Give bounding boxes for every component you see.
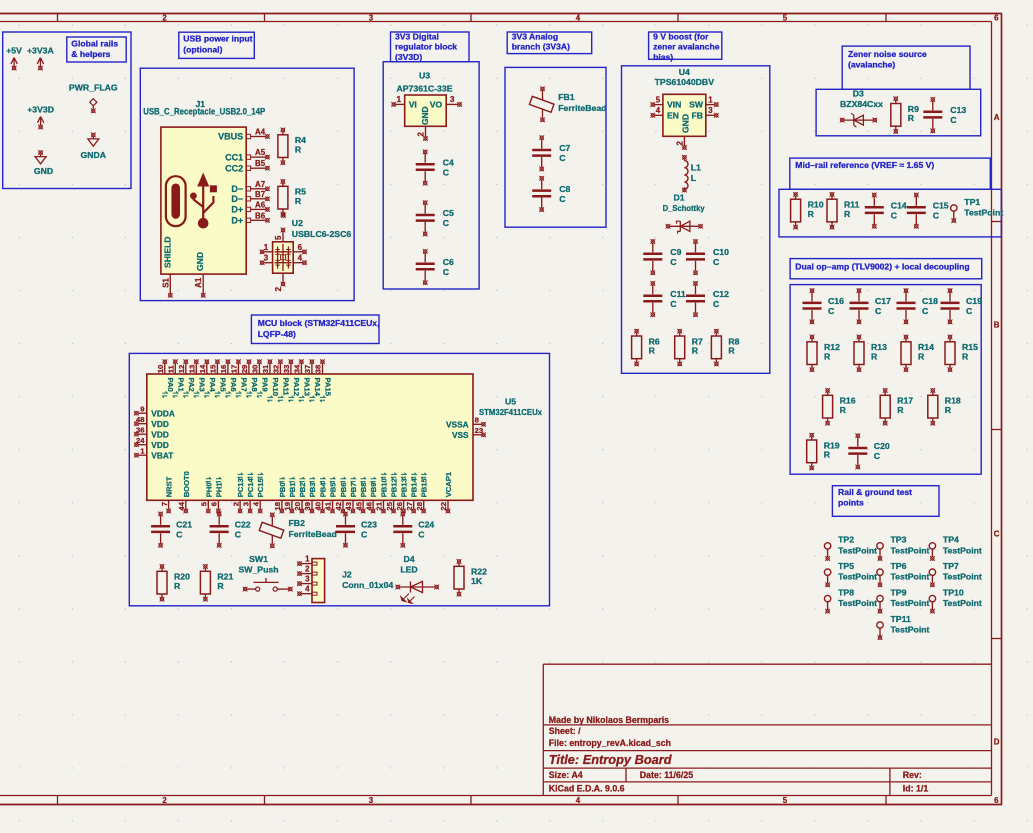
- svg-text:FB1: FB1: [558, 92, 575, 102]
- svg-text:PB6: PB6: [339, 483, 348, 498]
- svg-text:FB2: FB2: [289, 518, 306, 528]
- svg-text:1: 1: [264, 243, 269, 252]
- svg-text:C16: C16: [828, 296, 844, 306]
- IC U2 USBLC6-2SC6: [260, 213, 352, 291]
- svg-text:SW: SW: [689, 100, 704, 110]
- svg-text:VDDA: VDDA: [151, 409, 175, 419]
- svg-text:C: C: [994, 529, 1000, 538]
- text box USB power input (optional): [179, 32, 255, 58]
- block outline Mid-rail reference: [779, 189, 1001, 237]
- svg-text:C: C: [443, 167, 450, 177]
- svg-text:C: C: [670, 299, 677, 309]
- svg-text:L: L: [691, 173, 697, 183]
- ferrite bead FB2: [259, 512, 337, 548]
- svg-text:22: 22: [439, 502, 448, 511]
- svg-text:30: 30: [251, 365, 260, 374]
- svg-text:4: 4: [305, 585, 310, 594]
- svg-text:TP11: TP11: [891, 614, 911, 624]
- svg-text:C: C: [875, 306, 882, 316]
- svg-text:PB12: PB12: [390, 478, 399, 497]
- svg-text:1K: 1K: [471, 576, 483, 586]
- svg-text:Title: Entropy Board: Title: Entropy Board: [549, 752, 673, 767]
- svg-text:PA15: PA15: [324, 378, 333, 397]
- svg-text:VBUS: VBUS: [218, 132, 243, 142]
- svg-text:TP10: TP10: [943, 587, 964, 597]
- svg-text:19: 19: [283, 502, 292, 511]
- IC U4 TPS61040DBV: [650, 67, 718, 150]
- svg-text:3: 3: [241, 502, 250, 506]
- resistor R4: [278, 128, 306, 166]
- capacitor C24: [393, 512, 434, 548]
- power flag PWR_FLAG: [69, 82, 118, 113]
- svg-text:46: 46: [364, 502, 373, 511]
- svg-text:MCU block (STM32F411CEUx,: MCU block (STM32F411CEUx,: [258, 318, 380, 328]
- resistor R11: [827, 192, 860, 230]
- test point TP7: [929, 561, 982, 587]
- svg-text:A: A: [994, 113, 1000, 122]
- resistor R13: [854, 335, 887, 373]
- svg-text:VBAT: VBAT: [151, 451, 173, 461]
- svg-text:zener avalanche: zener avalanche: [653, 42, 720, 52]
- connector J1 USB_C_Receptacle_USB2.0_14P: [143, 99, 270, 298]
- svg-text:3: 3: [369, 14, 374, 23]
- svg-text:4: 4: [656, 106, 661, 115]
- svg-text:D−: D−: [231, 194, 243, 204]
- svg-text:2: 2: [417, 132, 426, 137]
- svg-text:STM32F411CEUx: STM32F411CEUx: [479, 407, 542, 417]
- svg-text:C: C: [559, 153, 566, 163]
- svg-text:KiCad E.D.A. 9.0.6: KiCad E.D.A. 9.0.6: [549, 783, 625, 793]
- svg-text:15: 15: [209, 364, 218, 373]
- svg-text:21: 21: [375, 501, 384, 510]
- svg-text:PH1: PH1: [214, 482, 223, 498]
- svg-text:C: C: [235, 530, 242, 540]
- zener diode D3 BZX84Cxx: [840, 89, 883, 128]
- svg-text:VO: VO: [430, 100, 443, 110]
- svg-text:PA9: PA9: [260, 378, 269, 392]
- text box Rail &amp; ground test points: [832, 486, 939, 517]
- svg-text:+3V3D: +3V3D: [27, 105, 54, 115]
- svg-text:C8: C8: [559, 184, 570, 194]
- svg-text:USB_C_Receptacle_USB2.0_14P: USB_C_Receptacle_USB2.0_14P: [143, 107, 265, 117]
- svg-text:C: C: [443, 218, 450, 228]
- svg-text:Id: 1/1: Id: 1/1: [903, 783, 929, 793]
- svg-text:Sheet: /: Sheet: /: [549, 726, 581, 736]
- svg-text:29: 29: [240, 365, 249, 374]
- svg-text:9 V boost (for: 9 V boost (for: [653, 31, 709, 41]
- resistor R10: [791, 192, 824, 230]
- svg-text:TP8: TP8: [838, 587, 854, 597]
- svg-text:34: 34: [293, 364, 302, 373]
- svg-text:PB5: PB5: [329, 482, 338, 498]
- svg-text:A6: A6: [255, 200, 266, 209]
- svg-text:TP3: TP3: [891, 535, 907, 545]
- text box Dual op-amp (TLV9002) + local decoupling: [790, 259, 982, 279]
- svg-text:5: 5: [783, 796, 788, 805]
- svg-text:U4: U4: [679, 67, 690, 77]
- svg-text:FB: FB: [692, 110, 703, 120]
- svg-text:R: R: [808, 209, 815, 219]
- svg-text:2: 2: [162, 796, 167, 805]
- svg-text:C: C: [418, 530, 425, 540]
- svg-text:R: R: [962, 352, 969, 362]
- svg-text:4: 4: [298, 254, 303, 263]
- svg-text:C: C: [176, 530, 183, 540]
- svg-text:A1: A1: [194, 277, 203, 288]
- svg-text:B7: B7: [255, 190, 266, 199]
- svg-text:R: R: [844, 209, 851, 219]
- text box 3V3 Digital regulator block (3V3D): [391, 31, 470, 62]
- svg-text:C22: C22: [235, 520, 251, 530]
- svg-text:U3: U3: [419, 70, 430, 80]
- svg-text:23: 23: [475, 426, 484, 435]
- ground GNDA: [81, 133, 107, 161]
- title block: [543, 664, 991, 795]
- svg-text:2: 2: [274, 286, 283, 291]
- svg-text:A4: A4: [255, 128, 266, 137]
- svg-text:3: 3: [369, 796, 374, 805]
- resistor R8: [711, 329, 739, 367]
- svg-text:(avalanche): (avalanche): [848, 59, 895, 69]
- svg-text:3: 3: [305, 575, 310, 584]
- svg-text:PC15: PC15: [256, 478, 265, 498]
- svg-text:EN: EN: [667, 110, 679, 120]
- svg-text:PWR_FLAG: PWR_FLAG: [69, 82, 118, 92]
- svg-text:TPS61040DBV: TPS61040DBV: [655, 77, 715, 87]
- svg-text:2: 2: [162, 14, 167, 23]
- svg-text:R: R: [728, 346, 735, 356]
- block outline Dual op-amp: [790, 285, 981, 475]
- test point TP2: [824, 535, 877, 561]
- svg-text:D_Schottky: D_Schottky: [663, 203, 705, 213]
- svg-text:R: R: [649, 346, 656, 356]
- svg-text:R: R: [824, 352, 831, 362]
- svg-text:PA1: PA1: [176, 378, 185, 393]
- svg-text:TestPoint: TestPoint: [891, 598, 930, 608]
- svg-text:VCAP1: VCAP1: [444, 471, 453, 497]
- resistor R21: [200, 564, 233, 602]
- test point TP11: [877, 614, 930, 640]
- svg-text:R: R: [908, 113, 915, 123]
- svg-text:PB10: PB10: [380, 478, 389, 497]
- svg-text:C18: C18: [922, 296, 938, 306]
- svg-text:TestPoint: TestPoint: [838, 572, 877, 582]
- resistor R12: [807, 335, 840, 373]
- svg-text:4: 4: [576, 14, 581, 23]
- svg-text:R: R: [295, 145, 302, 155]
- svg-text:C: C: [950, 115, 957, 125]
- svg-text:2: 2: [305, 565, 310, 574]
- svg-text:Rev:: Rev:: [903, 770, 922, 780]
- svg-text:11: 11: [167, 364, 176, 373]
- capacitor C11: [643, 281, 686, 317]
- svg-text:C6: C6: [443, 257, 454, 267]
- resistor R17: [880, 388, 913, 426]
- svg-text:U5: U5: [505, 397, 516, 407]
- svg-text:BOOT0: BOOT0: [182, 471, 191, 497]
- svg-text:SHIELD: SHIELD: [162, 236, 172, 268]
- block outline MCU block: [129, 353, 549, 605]
- svg-text:C: C: [933, 211, 940, 221]
- svg-text:C: C: [922, 306, 929, 316]
- svg-text:PA0: PA0: [166, 378, 175, 392]
- svg-text:3: 3: [264, 254, 269, 263]
- svg-text:PB14: PB14: [410, 478, 419, 498]
- svg-text:R: R: [692, 346, 699, 356]
- svg-text:6: 6: [994, 14, 999, 23]
- svg-text:A5: A5: [255, 148, 266, 157]
- IC U3 AP7361C-33E: [391, 70, 462, 141]
- svg-text:C: C: [891, 211, 898, 221]
- svg-text:39: 39: [303, 502, 312, 511]
- svg-text:12: 12: [177, 365, 186, 374]
- svg-text:PA10: PA10: [271, 378, 280, 396]
- capacitor C6: [416, 249, 454, 285]
- capacitor C15: [907, 193, 949, 229]
- svg-text:25: 25: [385, 501, 394, 510]
- svg-text:TestPoint: TestPoint: [891, 572, 930, 582]
- svg-text:TestPoint: TestPoint: [943, 572, 982, 582]
- capacitor C10: [686, 239, 729, 275]
- resistor R14: [901, 335, 934, 373]
- svg-text:5: 5: [200, 501, 209, 506]
- svg-text:BZX84Cxx: BZX84Cxx: [840, 99, 883, 109]
- svg-text:4: 4: [251, 501, 260, 506]
- svg-text:4: 4: [576, 796, 581, 805]
- svg-text:GND: GND: [34, 166, 53, 176]
- capacitor C12: [686, 281, 729, 317]
- svg-text:TestPoint: TestPoint: [964, 208, 1003, 218]
- text box 3V3 Analog branch (3V3A): [507, 31, 592, 53]
- svg-text:bias): bias): [653, 52, 673, 62]
- svg-text:C24: C24: [418, 520, 434, 530]
- svg-text:42: 42: [334, 502, 343, 511]
- svg-text:C: C: [966, 306, 973, 316]
- svg-text:TP9: TP9: [891, 587, 907, 597]
- svg-text:41: 41: [324, 501, 333, 510]
- svg-text:C7: C7: [559, 143, 570, 153]
- block outline Zener noise source: [816, 89, 981, 136]
- svg-text:SW1: SW1: [249, 554, 268, 564]
- svg-text:VDD: VDD: [151, 440, 169, 450]
- svg-text:48: 48: [136, 415, 145, 424]
- capacitor C18: [897, 288, 939, 324]
- svg-text:SW_Push: SW_Push: [238, 564, 278, 574]
- svg-text:43: 43: [344, 502, 353, 511]
- capacitor C4: [416, 150, 454, 186]
- IC U5 STM32F411CEUx: [134, 359, 542, 513]
- svg-text:PB15: PB15: [420, 478, 429, 498]
- svg-text:VI: VI: [409, 100, 417, 110]
- svg-text:PB13: PB13: [400, 478, 409, 497]
- svg-text:PA12: PA12: [292, 378, 301, 396]
- svg-text:D3: D3: [853, 89, 864, 99]
- diode D1 D_Schottky: [663, 192, 705, 233]
- svg-text:D+: D+: [231, 216, 243, 226]
- svg-text:PB1: PB1: [288, 482, 297, 498]
- svg-text:9: 9: [140, 404, 144, 413]
- svg-text:C: C: [670, 257, 677, 267]
- svg-text:S1: S1: [161, 278, 170, 288]
- svg-text:PA7: PA7: [239, 378, 248, 392]
- svg-text:TestPoint: TestPoint: [891, 625, 930, 635]
- block outline 3V3 Digital regulator: [383, 62, 479, 289]
- resistor R7: [675, 329, 703, 367]
- capacitor C20: [848, 433, 890, 469]
- svg-text:PH0: PH0: [204, 483, 213, 498]
- svg-text:TP4: TP4: [943, 535, 959, 545]
- svg-text:PC13: PC13: [236, 478, 245, 497]
- svg-text:13: 13: [188, 365, 197, 374]
- resistor R6: [632, 329, 660, 367]
- svg-text:Conn_01x04: Conn_01x04: [342, 580, 393, 590]
- svg-text:Rail & ground test: Rail & ground test: [838, 487, 912, 497]
- svg-text:31: 31: [261, 364, 270, 373]
- svg-text:C: C: [559, 194, 566, 204]
- svg-text:C: C: [713, 299, 720, 309]
- svg-text:PA14: PA14: [313, 378, 322, 397]
- svg-text:GND: GND: [420, 106, 430, 125]
- svg-text:3V3 Digital: 3V3 Digital: [395, 31, 439, 41]
- svg-text:GNDA: GNDA: [81, 150, 107, 160]
- svg-text:PB8: PB8: [359, 483, 368, 498]
- svg-text:(3V3D): (3V3D): [395, 52, 422, 62]
- svg-text:PA11: PA11: [281, 378, 290, 397]
- svg-text:C: C: [828, 306, 835, 316]
- svg-text:C13: C13: [950, 105, 966, 115]
- svg-text:R: R: [217, 581, 224, 591]
- svg-text:PA3: PA3: [197, 378, 206, 392]
- svg-text:PB0: PB0: [278, 483, 287, 498]
- svg-text:CC2: CC2: [225, 163, 243, 173]
- svg-text:TP5: TP5: [838, 561, 854, 571]
- resistor R15: [945, 335, 978, 373]
- svg-text:PB4: PB4: [319, 482, 328, 498]
- svg-text:C5: C5: [443, 208, 454, 218]
- svg-text:TestPoint: TestPoint: [838, 598, 877, 608]
- svg-text:R: R: [174, 581, 181, 591]
- svg-text:PA6: PA6: [229, 378, 238, 392]
- svg-text:20: 20: [293, 502, 302, 511]
- svg-text:C4: C4: [443, 157, 454, 167]
- svg-text:Made by Nikolaos Bermparis: Made by Nikolaos Bermparis: [549, 715, 669, 725]
- svg-text:1: 1: [140, 446, 145, 455]
- svg-text:40: 40: [314, 502, 323, 511]
- svg-text:PB2: PB2: [298, 483, 307, 498]
- svg-text:TestPoint: TestPoint: [891, 545, 930, 555]
- switch SW1 SW_Push: [238, 554, 292, 592]
- svg-text:C19: C19: [966, 296, 982, 306]
- svg-text:6: 6: [298, 243, 303, 252]
- svg-text:24: 24: [136, 436, 145, 445]
- ferrite bead FB1: [529, 86, 606, 122]
- svg-text:L1: L1: [691, 162, 701, 172]
- text box 9 V boost (for zener avalanche bias): [649, 31, 722, 62]
- svg-text:C9: C9: [670, 247, 681, 257]
- svg-text:R: R: [840, 405, 847, 415]
- svg-text:PA4: PA4: [208, 378, 217, 393]
- svg-text:B: B: [994, 321, 1000, 330]
- svg-text:R: R: [897, 405, 904, 415]
- resistor R20: [157, 564, 190, 602]
- svg-text:27: 27: [405, 502, 414, 511]
- svg-text:R: R: [824, 450, 831, 460]
- LED D4: [395, 554, 439, 603]
- resistor R5: [278, 179, 306, 217]
- svg-text:44: 44: [177, 501, 186, 510]
- inductor L1: [682, 155, 701, 193]
- svg-text:Dual op–amp (TLV9002) + local: Dual op–amp (TLV9002) + local decoupling: [795, 261, 969, 271]
- svg-text:LQFP-48): LQFP-48): [258, 329, 296, 339]
- svg-text:R: R: [871, 352, 878, 362]
- svg-text:5: 5: [783, 14, 788, 23]
- svg-text:8: 8: [475, 416, 480, 425]
- svg-text:VDD: VDD: [151, 430, 169, 440]
- svg-text:6: 6: [994, 796, 999, 805]
- test point TP8: [824, 587, 877, 613]
- power +5V: [6, 46, 22, 71]
- svg-text:C12: C12: [713, 289, 729, 299]
- svg-text:VSS: VSS: [452, 430, 469, 440]
- svg-text:26: 26: [395, 502, 404, 511]
- svg-text:3: 3: [450, 95, 455, 104]
- svg-text:Zener noise source: Zener noise source: [848, 49, 927, 59]
- svg-text:branch (3V3A): branch (3V3A): [512, 42, 570, 52]
- text box Zener noise source (avalanche): [842, 46, 970, 89]
- svg-text:+5V: +5V: [6, 46, 22, 56]
- svg-text:C: C: [874, 451, 881, 461]
- svg-text:GND: GND: [681, 114, 691, 133]
- svg-text:3V3 Analog: 3V3 Analog: [512, 31, 558, 41]
- svg-text:Global rails: Global rails: [71, 39, 118, 49]
- svg-text:C15: C15: [933, 201, 949, 211]
- test point TP1: [951, 197, 1004, 223]
- block outline 3V3 Analog branch: [505, 67, 606, 227]
- test point TP10: [929, 587, 982, 613]
- svg-text:TestPoint: TestPoint: [943, 545, 982, 555]
- svg-text:File: entropy_revA.kicad_sch: File: entropy_revA.kicad_sch: [549, 738, 671, 748]
- svg-text:Date: 11/6/25: Date: 11/6/25: [640, 770, 693, 780]
- svg-text:R: R: [918, 352, 925, 362]
- svg-text:18: 18: [273, 501, 282, 510]
- svg-text:5: 5: [274, 235, 283, 240]
- svg-text:USBLC6-2SC6: USBLC6-2SC6: [292, 229, 352, 239]
- svg-text:regulator block: regulator block: [395, 42, 457, 52]
- svg-text:A7: A7: [255, 180, 266, 189]
- svg-text:PA2: PA2: [187, 378, 196, 392]
- text box MCU block (STM32F411CEUx, LQFP-48): [251, 315, 379, 344]
- svg-text:B5: B5: [255, 159, 266, 168]
- svg-text:VIN: VIN: [667, 100, 681, 110]
- svg-text:TP2: TP2: [838, 535, 854, 545]
- svg-text:R: R: [945, 405, 952, 415]
- svg-text:C: C: [443, 267, 450, 277]
- capacitor C13: [923, 97, 966, 133]
- svg-text:D4: D4: [403, 554, 414, 564]
- svg-text:VSSA: VSSA: [446, 420, 469, 430]
- resistor R18: [928, 388, 961, 426]
- svg-text:14: 14: [198, 364, 207, 373]
- svg-text:C20: C20: [874, 441, 890, 451]
- capacitor C17: [850, 288, 892, 324]
- svg-text:28: 28: [415, 501, 424, 510]
- svg-text:+3V3A: +3V3A: [27, 46, 55, 56]
- power +3V3A: [27, 46, 55, 71]
- capacitor C7: [532, 135, 570, 171]
- resistor R22: [454, 559, 487, 597]
- svg-text:TestPoint: TestPoint: [943, 598, 982, 608]
- svg-text:32: 32: [272, 365, 281, 374]
